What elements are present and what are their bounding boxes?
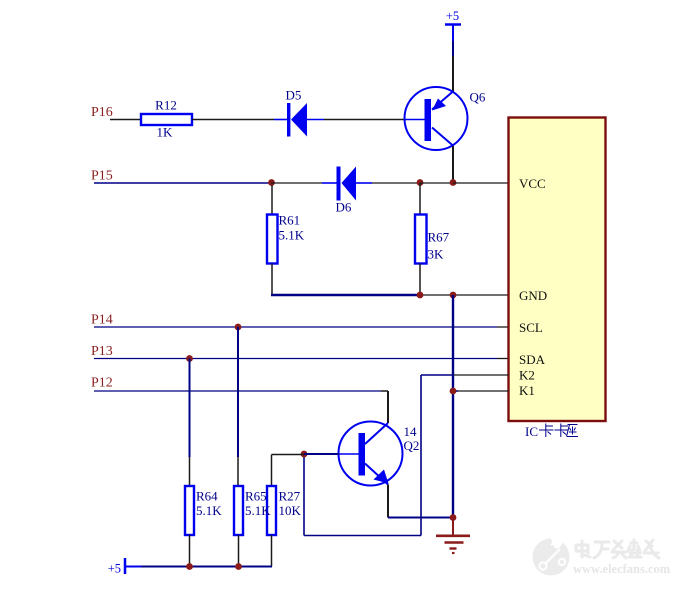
svg-text:3K: 3K — [428, 247, 445, 262]
glyph 卡 — [555, 424, 569, 438]
wire P14 down to R65 — [237, 327, 239, 457]
wire P13 to SDA — [94, 358, 497, 360]
wire +5 to Q6 emitter — [452, 41, 454, 56]
resistor R67 — [415, 183, 450, 295]
watermark text 电子发烧友 — [576, 540, 659, 558]
svg-text:5.1K: 5.1K — [245, 503, 271, 518]
svg-text:P15: P15 — [91, 169, 113, 184]
transistor Q2 — [339, 422, 420, 486]
resistor R27 — [267, 455, 304, 567]
wire K2 pin horizontal — [454, 374, 509, 376]
resistor R65 — [234, 486, 271, 567]
wire base node to Q2 base — [304, 453, 339, 455]
wire to D6 — [271, 182, 322, 184]
wire D6 to R67 node — [372, 182, 420, 184]
wire R12 to D5 — [192, 119, 274, 121]
wire +5 rail — [141, 566, 272, 568]
svg-text:+5: +5 — [446, 9, 459, 23]
junction R65 bottom — [235, 563, 242, 570]
power +5 bottom — [108, 558, 141, 576]
resistor R64 — [185, 486, 222, 567]
junction Q6 collector node — [450, 179, 457, 186]
svg-text:SDA: SDA — [519, 352, 546, 367]
svg-text:D6: D6 — [336, 200, 352, 215]
wire P15 — [94, 182, 271, 184]
svg-text:R61: R61 — [279, 213, 301, 228]
junction K1/ground — [450, 388, 457, 395]
wire R67 node to Q6 node — [420, 182, 453, 184]
svg-text:P14: P14 — [91, 313, 113, 328]
svg-text:K1: K1 — [519, 383, 535, 398]
junction emitter/ground — [450, 514, 457, 521]
diode D5 — [274, 88, 324, 137]
junction R64 bottom — [186, 563, 193, 570]
svg-text:P13: P13 — [91, 344, 113, 359]
wire P12 — [94, 390, 381, 392]
svg-text:R64: R64 — [196, 489, 218, 504]
junction P13 — [186, 355, 193, 362]
svg-text:R27: R27 — [279, 489, 301, 504]
junction P14 — [235, 324, 242, 331]
junction GND vertical — [450, 292, 457, 299]
wire Q2 emitter down — [387, 485, 389, 518]
svg-text:R65: R65 — [245, 489, 267, 504]
svg-text:VCC: VCC — [519, 176, 546, 191]
wire ground vertical — [452, 295, 454, 518]
svg-text:P16: P16 — [91, 105, 113, 120]
svg-text:5.1K: 5.1K — [196, 503, 222, 518]
svg-text:D5: D5 — [286, 88, 302, 103]
svg-text:Q2: Q2 — [404, 438, 420, 453]
glyph 座 — [567, 425, 579, 437]
watermark logo — [533, 534, 570, 576]
svg-text:GND: GND — [519, 288, 547, 303]
wire P14 to SCL — [94, 326, 497, 328]
wire K2 vertical — [420, 375, 422, 536]
svg-text:www.elecfans.com: www.elecfans.com — [573, 562, 671, 576]
svg-text:5.1K: 5.1K — [279, 228, 305, 243]
svg-text:1K: 1K — [157, 125, 174, 140]
wire emitter to ground vertical — [388, 517, 453, 519]
wire Q6 emitter lead — [452, 56, 454, 92]
junction R67 top — [417, 179, 424, 186]
svg-text:K2: K2 — [519, 368, 535, 383]
wire Q6 collector to VCC node — [452, 146, 454, 183]
resistor R61 — [267, 185, 305, 295]
GND rail wire — [271, 294, 419, 296]
diode D6 — [322, 167, 372, 215]
junction R67 bottom — [417, 292, 424, 299]
ground symbol — [436, 518, 470, 554]
wire P13 down to R64 — [189, 359, 191, 458]
power +5 top — [445, 9, 461, 41]
svg-text:+5: +5 — [108, 562, 121, 576]
wire K2 bottom horizontal — [304, 535, 421, 537]
IC socket box — [509, 118, 606, 422]
wire to VCC pin — [453, 182, 509, 184]
svg-text:Q6: Q6 — [470, 90, 486, 105]
wire P16 to R12 — [110, 119, 141, 121]
transistor Q6 — [404, 87, 486, 150]
wire P12 down to Q2 collector — [387, 391, 389, 423]
svg-text:SCL: SCL — [519, 320, 543, 335]
junction P15/R61 — [268, 179, 275, 186]
resistor R12 — [141, 98, 192, 140]
svg-text:P12: P12 — [91, 376, 113, 391]
svg-text:14: 14 — [404, 424, 418, 439]
label IC卡卡座 — [525, 424, 578, 440]
wire K1 — [458, 390, 509, 392]
glyph 卡 — [539, 424, 554, 438]
svg-text:10K: 10K — [279, 503, 302, 518]
svg-text:IC: IC — [525, 424, 538, 439]
wire D5 to Q6 base — [324, 119, 404, 121]
svg-text:R12: R12 — [155, 98, 177, 113]
svg-text:R67: R67 — [428, 230, 450, 245]
wire up to Q2 base node — [303, 454, 305, 536]
junction Q2 base node — [301, 451, 308, 458]
